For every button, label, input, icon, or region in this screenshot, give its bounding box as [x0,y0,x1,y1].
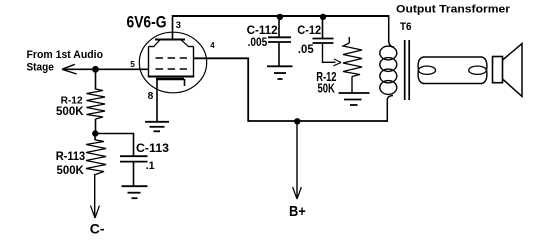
wire B+ drop [296,121,298,198]
svg-text:500K: 500K [56,104,84,118]
ground under R-12 pot [339,93,370,105]
node C-12 junction dot [320,14,326,20]
ground under C-113 [122,186,148,198]
wire R-12 to junction [95,119,97,134]
tube cathode bar [156,78,184,80]
tube envelope circle [139,32,206,93]
wire top plate bus [173,15,389,17]
transformer T6 primary lead bottom [387,96,393,122]
svg-text:5: 5 [130,60,135,69]
arrowhead wiper [334,59,342,66]
wire cathode lead down [156,79,158,122]
transformer T6 core [405,40,410,100]
wire pin 5 grid input [62,68,149,70]
wire plate left diagonal [154,40,161,47]
resistor R-113 500K [86,140,106,175]
svg-text:Output Transformer: Output Transformer [396,4,511,16]
speaker driver box [493,57,503,83]
tube grid dashed line 2 [156,68,188,70]
svg-text:.005: .005 [248,35,268,49]
svg-text:.05: .05 [298,42,314,56]
svg-text:T6: T6 [400,21,412,33]
svg-text:C-113: C-113 [136,143,169,155]
transformer T6 secondary loop [418,57,487,84]
wire C-112 to ground [278,42,280,66]
resistor R-12 left 500K [87,89,106,119]
svg-text:From 1st Audio: From 1st Audio [27,49,104,61]
wire junction to C-113 [95,134,134,156]
wire junction to R-12 [95,69,97,89]
wire C-12 lead [322,16,324,38]
input arrowhead [62,64,77,74]
svg-text:B+: B+ [289,203,306,220]
svg-text:Stage: Stage [27,61,54,73]
node C-112 junction dot [277,14,283,20]
svg-text:6V6-G: 6V6-G [127,13,167,32]
transformer T6 primary lead top [389,15,394,47]
node B+ junction dot [294,118,300,124]
arrowhead B+ [293,187,302,199]
speaker cone [503,44,523,97]
capacitor C-113 [120,156,148,161]
capacitor C-12 [313,39,334,44]
svg-text:.1: .1 [146,160,155,172]
wire C-12 to wiper [323,43,336,62]
ground under tube cathode [145,122,169,132]
svg-text:C-12: C-12 [297,25,321,37]
svg-text:R-113: R-113 [56,151,85,163]
svg-text:C-: C- [90,220,105,236]
capacitor C-112 [268,37,291,42]
wire pin 3 lead [172,15,174,40]
svg-text:4: 4 [210,41,215,50]
wire pin 4 to B+ bus [194,58,389,121]
wire C-113 to ground [133,162,135,186]
svg-text:8: 8 [148,91,154,102]
svg-text:500K: 500K [57,163,85,177]
transformer T6 primary coils [380,46,397,94]
tube V1 6V6-G plate [155,39,185,41]
arrowhead C- [91,206,100,219]
wire R-113 to C- arrow [94,175,96,217]
tube beam plate stub [184,79,186,86]
wire plate right diagonal [181,40,189,47]
resistor R-12 pot 50K [343,37,362,93]
tube grid box [148,47,194,77]
node grid junction dot [92,66,99,73]
wire junction to R-113 [94,134,96,141]
node R-12 R-113 junction dot [92,130,98,136]
wire C-112 lead [278,16,280,37]
svg-text:50K: 50K [318,81,336,96]
svg-text:3: 3 [176,20,181,30]
tube grid dashed line 1 [156,57,188,59]
ground under C-112 [267,66,293,79]
